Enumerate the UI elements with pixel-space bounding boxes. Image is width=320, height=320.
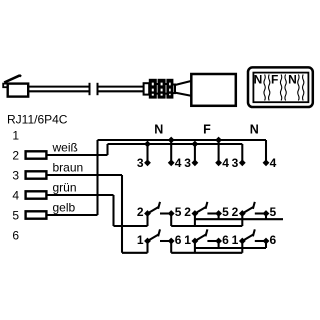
terminal socket1 contact 3 [144, 159, 151, 166]
socket3 contact 6 line [255, 240, 266, 242]
TAE socket contact spring 3 [280, 75, 281, 101]
wire gelb pin5 horizontal [46, 214, 97, 216]
svg-text:1: 1 [184, 233, 191, 247]
TAE plug strain relief step [144, 83, 150, 94]
pin 2 contact pad [26, 151, 47, 158]
TAE socket contact spring 6 [303, 75, 304, 101]
svg-text:2: 2 [232, 205, 239, 219]
socket3 switch 2-5 lever [242, 207, 253, 214]
contact point socket3-1 [239, 238, 246, 245]
socket2 contact 3 drop [194, 144, 196, 163]
svg-text:F: F [203, 122, 211, 136]
junction socket2-4 on upper bus [215, 137, 222, 144]
wire weiss pin2 horizontal [46, 154, 107, 156]
rail contact 5 output [195, 218, 283, 220]
socket1 switch 2-5 actuator tick [158, 202, 160, 209]
svg-text:4: 4 [222, 156, 229, 170]
socket2 switch 2-5 lever [195, 207, 206, 214]
socket3 contact 4 drop [265, 140, 267, 163]
TAE plug cone lower line [175, 93, 191, 96]
socket1 switch 2-5 lever [148, 207, 159, 214]
rail socket1-5 to socket3-2 [171, 225, 242, 227]
svg-text:N: N [250, 122, 259, 136]
junction socket2-3 on lower bus [192, 141, 199, 148]
TAE plug strain relief rib 3 highlight [169, 83, 171, 96]
junction socket1-3 on lower bus [144, 141, 151, 148]
pin 5 contact pad [26, 211, 47, 218]
socket3 contact 5 line [255, 212, 266, 214]
socket3 contact 1 drop [241, 241, 243, 253]
contact point socket1-1 [144, 238, 151, 245]
wire braun to contact 1 rail [122, 252, 148, 254]
socket3 switch 1-6 lever [242, 235, 253, 242]
svg-text:1: 1 [12, 128, 19, 142]
TAE plug strain relief rib 3 [168, 80, 173, 97]
wire gruen contact 2 riser [146, 214, 148, 227]
svg-text:N: N [288, 73, 297, 87]
svg-text:6: 6 [270, 233, 277, 247]
socket3 contact 3 drop [241, 144, 243, 163]
socket2 switch 1-6 lever [195, 235, 206, 242]
contact point socket2-5 [215, 210, 222, 217]
svg-text:6: 6 [222, 233, 229, 247]
svg-text:N: N [254, 73, 263, 87]
svg-text:weiß: weiß [52, 141, 78, 155]
wire braun pin3 horizontal [46, 174, 122, 176]
socket1 contact 6 line [160, 240, 171, 242]
socket2 switch 1-6 actuator tick [206, 229, 208, 236]
svg-text:4: 4 [12, 188, 19, 202]
socket2 contact 5 stub to output rail [218, 214, 220, 220]
terminal socket2 contact 4 [215, 159, 222, 166]
socket2 switch 2-5 actuator tick [206, 202, 208, 209]
TAE socket contact spring 5 [298, 75, 299, 101]
TAE socket outer housing [248, 67, 313, 107]
RJ11 plug latch tip [20, 75, 21, 77]
svg-text:5: 5 [222, 205, 229, 219]
wire gelb riser [96, 140, 98, 215]
socket1 contact 6 drop [170, 241, 172, 253]
terminal socket3 contact 4 [263, 159, 270, 166]
cable segment left lower line [28, 90, 89, 92]
svg-text:2: 2 [184, 205, 191, 219]
svg-text:4: 4 [175, 156, 182, 170]
RJ11 plug nose notch [3, 84, 8, 88]
cable segment right lower line [98, 90, 145, 92]
socket2 contact 6 line [207, 240, 218, 242]
pin 3 contact pad [26, 171, 47, 178]
contact point socket3-6 [263, 238, 270, 245]
wire gruen drop [112, 195, 114, 226]
wire gruen pin4 horizontal [46, 194, 113, 196]
svg-text:5: 5 [12, 208, 19, 222]
socket2 contact 5 line [207, 212, 218, 214]
svg-text:grün: grün [53, 181, 77, 195]
contact point socket3-5 [263, 210, 270, 217]
TAE plug strain relief rib 2 highlight [161, 83, 163, 96]
contact point socket1-6 [168, 238, 175, 245]
socket3 contact 2 drop [241, 214, 243, 227]
TAE plug strain relief rib 1 highlight [152, 83, 154, 96]
svg-text:6: 6 [175, 233, 182, 247]
svg-text:4: 4 [270, 156, 277, 170]
svg-text:RJ11/6P4C: RJ11/6P4C [7, 113, 68, 127]
svg-text:3: 3 [12, 168, 19, 182]
svg-text:braun: braun [53, 161, 84, 175]
socket1 contact 5 drop [170, 214, 172, 227]
svg-text:5: 5 [270, 205, 277, 219]
cable segment left upper line [28, 86, 89, 88]
TAE plug cone upper line [175, 81, 191, 85]
cable break cap right [97, 83, 99, 95]
contact point socket1-2 [144, 210, 151, 217]
TAE plug strain relief neck 1 [156, 84, 159, 94]
contact point socket1-5 [168, 210, 175, 217]
contact point socket2-1 [192, 238, 199, 245]
contact point socket3-2 [239, 210, 246, 217]
TAE plug strain relief neck 2 [164, 84, 167, 94]
TAE socket contact spring 1 [264, 75, 265, 101]
svg-text:2: 2 [137, 205, 144, 219]
wire braun contact 1 riser [146, 241, 148, 253]
svg-text:N: N [154, 122, 163, 136]
wire braun drop [121, 175, 123, 253]
svg-text:3: 3 [184, 156, 191, 170]
socket3 switch 1-6 actuator tick [253, 229, 255, 236]
svg-text:2: 2 [12, 148, 19, 162]
wire gruen to contact 2 rail [114, 225, 148, 227]
pin 4 contact pad [26, 191, 47, 198]
svg-text:F: F [271, 73, 278, 87]
TAE socket contact spring 4 [285, 75, 286, 101]
socket1 switch 1-6 actuator tick [158, 229, 160, 236]
RJ11 plug latch [4, 75, 20, 82]
socket2 contact 6 stub to rail [218, 241, 220, 248]
TAE socket inner frame [253, 73, 308, 103]
socket2 contact 4 drop [218, 140, 220, 163]
socket1 contact 3 drop [146, 144, 148, 163]
socket1 switch 1-6 lever [148, 235, 159, 242]
TAE plug strain relief rib 2 [159, 80, 165, 97]
svg-text:6: 6 [12, 228, 19, 242]
wire weiss riser [106, 144, 108, 155]
RJ11 plug body [8, 84, 29, 97]
contact point socket2-2 [192, 210, 199, 217]
cable break cap left [89, 83, 91, 95]
TAE plug strain relief rib 1 [150, 80, 156, 97]
svg-text:gelb: gelb [53, 201, 76, 215]
socket2 contact 1 drop [194, 241, 196, 253]
svg-text:1: 1 [232, 233, 239, 247]
TAE plug strain relief tip [172, 85, 175, 94]
rail socket1-6 to socket3-1 [171, 252, 242, 254]
cable segment right upper line [98, 86, 145, 88]
svg-text:3: 3 [137, 156, 144, 170]
socket3 contact 5 stub to output rail [265, 214, 267, 220]
socket1 contact 4 drop [170, 140, 172, 163]
svg-text:1: 1 [137, 233, 144, 247]
socket3 contact 6 riser [265, 241, 267, 248]
socket1 contact 5 line [160, 212, 171, 214]
contact point socket2-6 [215, 238, 222, 245]
TAE plug body [191, 74, 236, 106]
wire bus N lower (weiss, contacts 3) [108, 143, 243, 145]
socket3 switch 2-5 actuator tick [253, 202, 255, 209]
terminal socket3 contact 3 [239, 159, 246, 166]
terminal socket2 contact 3 [192, 159, 199, 166]
terminal socket1 contact 4 [168, 159, 175, 166]
TAE socket contact spring 2 [269, 75, 270, 101]
svg-text:3: 3 [232, 156, 239, 170]
svg-text:5: 5 [175, 205, 182, 219]
rail socket2-1 to socket3-6 [195, 247, 266, 249]
socket2 contact 2 drop [194, 214, 196, 227]
junction socket1-4 on upper bus [168, 137, 175, 144]
wire bus upper (gelb, contacts 4) [98, 139, 267, 141]
